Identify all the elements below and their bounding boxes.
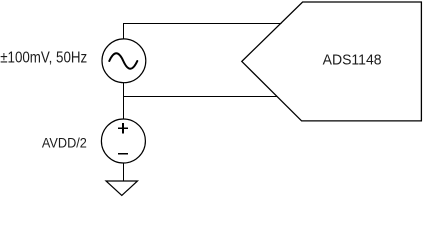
svg-text:AVDD/2: AVDD/2 <box>42 135 87 151</box>
svg-text:ADS1148: ADS1148 <box>323 52 382 69</box>
svg-text:±100mV, 50Hz: ±100mV, 50Hz <box>0 50 87 67</box>
